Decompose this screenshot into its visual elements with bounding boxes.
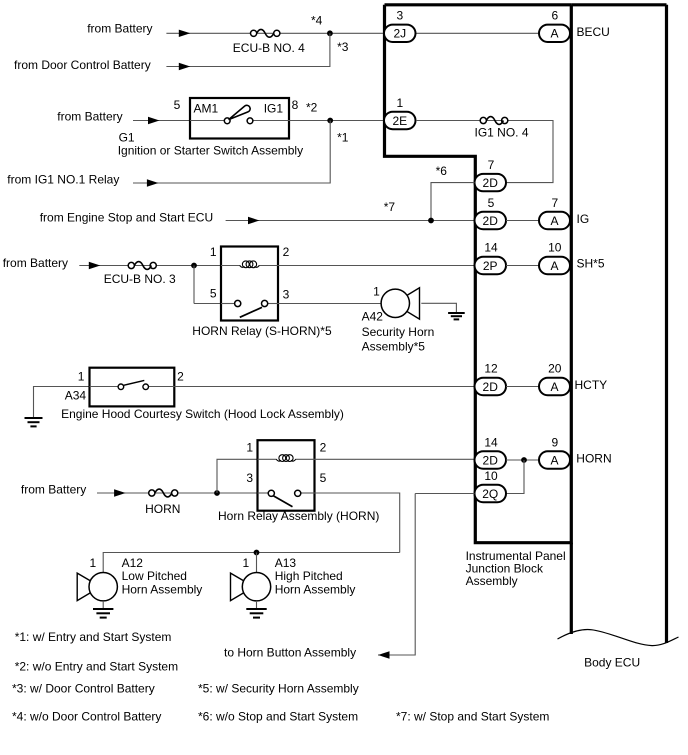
- ground (A12): [93, 608, 113, 610]
- svg-text:*5: w/ Security Horn Assembly: *5: w/ Security Horn Assembly: [198, 682, 359, 696]
- Body ECU outline: [571, 5, 666, 643]
- svg-text:Security Horn: Security Horn: [362, 325, 435, 339]
- svg-text:2J: 2J: [393, 27, 406, 41]
- svg-text:3: 3: [246, 471, 253, 485]
- svg-text:HORN: HORN: [145, 502, 180, 516]
- svg-text:9: 9: [551, 435, 558, 449]
- svg-text:from Battery: from Battery: [87, 21, 152, 35]
- svg-text:from Engine Stop and Start ECU: from Engine Stop and Start ECU: [40, 211, 213, 225]
- wire 2D-14 to A-9 with junction: [506, 459, 539, 461]
- svg-text:1: 1: [210, 245, 217, 259]
- wire 2E through fuse IG1 NO.4 to 2D-7 (inside block): [416, 121, 553, 183]
- svg-text:G1: G1: [119, 130, 135, 144]
- svg-text:12: 12: [484, 362, 498, 376]
- svg-text:A34: A34: [65, 389, 87, 403]
- svg-text:1: 1: [78, 369, 85, 383]
- svg-text:*2: *2: [306, 101, 318, 115]
- svg-text:BECU: BECU: [577, 25, 610, 39]
- relay blade (open): [240, 307, 262, 317]
- wire from Battery to 2J: [166, 32, 384, 34]
- svg-text:5: 5: [210, 287, 217, 301]
- svg-text:IG1 NO. 4: IG1 NO. 4: [475, 126, 529, 140]
- junction dot A13 branch: [254, 550, 260, 556]
- svg-text:20: 20: [548, 362, 562, 376]
- svg-text:Horn Assembly: Horn Assembly: [275, 582, 356, 596]
- ignition key lever: [229, 105, 251, 119]
- wire ground to hood switch: [34, 387, 90, 419]
- svg-text:A: A: [550, 380, 558, 394]
- svg-text:10: 10: [548, 240, 562, 254]
- wire 2D-5 to A-7: [506, 220, 539, 222]
- horn A13 High Pitched Horn Assembly: [231, 573, 245, 601]
- wire switch to 2E: [289, 120, 385, 122]
- junction block Instrumental Panel Junction Block Assembly outline: [385, 5, 572, 543]
- wire relay pin 2 to 2D-14: [315, 458, 475, 460]
- svg-text:7: 7: [488, 158, 495, 172]
- svg-text:SH*5: SH*5: [577, 257, 605, 271]
- svg-text:6: 6: [551, 9, 558, 23]
- svg-text:5: 5: [174, 98, 181, 112]
- wire 2Q to horn button drop: [415, 493, 474, 495]
- svg-text:Horn Relay Assembly (HORN): Horn Relay Assembly (HORN): [218, 509, 379, 523]
- svg-text:*6: *6: [436, 164, 448, 178]
- wire down to A13: [256, 553, 258, 573]
- svg-text:1: 1: [396, 96, 403, 110]
- svg-text:*7: *7: [384, 200, 396, 214]
- wire from IG1 NO.1 Relay up to dot: [133, 121, 330, 184]
- relay coil: [258, 458, 277, 460]
- wire A-9 junction down to 2Q: [506, 460, 524, 494]
- svg-text:2D: 2D: [483, 380, 499, 394]
- wire A13 to ground: [256, 601, 258, 609]
- svg-text:IG1: IG1: [264, 102, 284, 116]
- svg-text:1: 1: [243, 556, 250, 570]
- svg-text:*2: w/o Entry and Start System: *2: w/o Entry and Start System: [15, 660, 178, 674]
- Body ECU break wavy line: [558, 630, 679, 646]
- svg-text:HCTY: HCTY: [575, 378, 608, 392]
- relay blade (open): [274, 496, 293, 507]
- svg-text:Assembly*5: Assembly*5: [362, 339, 426, 353]
- wire *6 from 2D-7 down to stop/start line: [431, 183, 475, 221]
- svg-text:HORN: HORN: [576, 452, 611, 466]
- svg-text:*1: w/ Entry and Start System: *1: w/ Entry and Start System: [15, 630, 172, 644]
- svg-text:*6: w/o Stop and Start System: *6: w/o Stop and Start System: [198, 710, 358, 724]
- svg-text:10: 10: [484, 469, 498, 483]
- wire from Battery through fuse to relay: [79, 265, 221, 267]
- svg-text:14: 14: [484, 435, 498, 449]
- relay contact circles: [258, 492, 269, 494]
- svg-text:A: A: [550, 259, 558, 273]
- wire horn to ground: [421, 303, 456, 313]
- svg-text:AM1: AM1: [194, 102, 219, 116]
- svg-text:Engine Hood Courtesy Switch (H: Engine Hood Courtesy Switch (Hood Lock A…: [61, 407, 344, 421]
- svg-text:2D: 2D: [483, 453, 499, 467]
- svg-text:1: 1: [90, 556, 97, 570]
- svg-text:HORN Relay (S-HORN)*5: HORN Relay (S-HORN)*5: [192, 324, 332, 338]
- svg-text:ECU-B NO. 3: ECU-B NO. 3: [104, 272, 176, 286]
- svg-text:*1: *1: [337, 130, 349, 144]
- svg-text:from Battery: from Battery: [21, 483, 86, 497]
- wire 2P to A-10: [506, 265, 539, 267]
- svg-text:A12: A12: [122, 556, 144, 570]
- junction dot *4/*3: [327, 30, 333, 36]
- switch box A34 Engine Hood Courtesy Switch: [90, 368, 175, 407]
- wire from Door Control Battery up to dot: [166, 33, 330, 66]
- ground (A13): [246, 608, 266, 610]
- wire 2D-12 to A-20: [506, 386, 539, 388]
- svg-text:A: A: [550, 27, 558, 41]
- svg-text:2D: 2D: [483, 214, 499, 228]
- svg-text:from Door Control Battery: from Door Control Battery: [14, 58, 151, 72]
- horn A12 Low Pitched Horn Assembly: [77, 573, 91, 601]
- svg-text:3: 3: [283, 287, 290, 301]
- svg-text:from Battery: from Battery: [3, 256, 68, 270]
- svg-text:*4: w/o Door Control Battery: *4: w/o Door Control Battery: [12, 710, 161, 724]
- wire dot up to relay pin 1: [217, 459, 258, 493]
- svg-text:1: 1: [246, 440, 253, 454]
- wire 2J to A-6 inside block: [416, 32, 539, 34]
- svg-text:8: 8: [292, 98, 299, 112]
- ground (security horn): [448, 312, 465, 314]
- wire dot down to contact row: [193, 266, 195, 304]
- wire drop to Horn Button Assembly: [378, 494, 415, 656]
- svg-text:Low Pitched: Low Pitched: [122, 569, 187, 583]
- wire from Engine Stop and Start ECU to 2D-5: [226, 220, 475, 222]
- junction dot to relay coil/contact: [191, 263, 197, 269]
- svg-text:*3: *3: [337, 40, 349, 54]
- switch box G1 Ignition or Starter Switch Assembly: [190, 98, 289, 139]
- relay box HORN Relay (S-HORN)*5: [221, 247, 278, 321]
- switch contacts inside box: [190, 120, 224, 122]
- svg-text:3: 3: [396, 9, 403, 23]
- ground (hood switch): [25, 417, 43, 419]
- svg-text:2P: 2P: [483, 259, 498, 273]
- fuse IG1 NO. 4: [480, 117, 486, 123]
- junction dot (pin1 branch): [214, 490, 220, 496]
- svg-text:*7: w/ Stop and Start System: *7: w/ Stop and Start System: [396, 710, 549, 724]
- wire horn bus: [103, 553, 400, 573]
- svg-text:Ignition or Starter Switch Ass: Ignition or Starter Switch Assembly: [118, 144, 303, 158]
- svg-text:*3: w/ Door Control Battery: *3: w/ Door Control Battery: [12, 682, 155, 696]
- relay contact circles: [221, 303, 235, 305]
- svg-text:*4: *4: [311, 13, 323, 27]
- fuse ECU-B NO. 4: [251, 30, 257, 36]
- wire relay pin 5 down to horns: [315, 493, 400, 553]
- wire from Battery to switch: [133, 120, 190, 122]
- relay coil: [221, 265, 240, 267]
- switch blade (closed): [124, 380, 145, 385]
- svg-text:A: A: [550, 214, 558, 228]
- wire switch to 2D-12: [174, 386, 474, 388]
- svg-text:2D: 2D: [483, 176, 499, 190]
- junction dot *6/*7: [428, 218, 434, 224]
- svg-text:from Battery: from Battery: [57, 110, 122, 124]
- svg-text:A13: A13: [275, 556, 297, 570]
- relay box Horn Relay Assembly (HORN): [258, 440, 315, 511]
- wire from Battery through HORN fuse to relay pin 3: [97, 492, 258, 494]
- wire relay pin 2 to 2P: [278, 265, 475, 267]
- svg-text:Body ECU: Body ECU: [584, 655, 640, 669]
- svg-text:1: 1: [373, 284, 380, 298]
- svg-text:5: 5: [488, 196, 495, 210]
- svg-text:Assembly: Assembly: [466, 574, 518, 588]
- svg-text:14: 14: [484, 240, 498, 254]
- wire A12 to ground: [102, 601, 104, 609]
- switch contacts: [90, 386, 119, 388]
- svg-text:Horn Assembly: Horn Assembly: [122, 582, 203, 596]
- svg-text:from IG1 NO.1 Relay: from IG1 NO.1 Relay: [7, 173, 119, 187]
- horn A42 Security Horn Assembly*5: [406, 288, 420, 319]
- svg-text:2: 2: [320, 440, 327, 454]
- svg-text:ECU-B NO. 4: ECU-B NO. 4: [233, 41, 305, 55]
- svg-text:to Horn Button Assembly: to Horn Button Assembly: [224, 646, 356, 660]
- svg-text:A: A: [550, 453, 558, 467]
- svg-text:2Q: 2Q: [482, 487, 498, 501]
- svg-text:5: 5: [320, 471, 327, 485]
- svg-text:2E: 2E: [392, 114, 407, 128]
- svg-text:2: 2: [283, 245, 290, 259]
- svg-text:2: 2: [177, 369, 184, 383]
- svg-text:High Pitched: High Pitched: [275, 569, 343, 583]
- wire relay pin 3 to security horn: [278, 303, 381, 305]
- junction dot *2/*1: [327, 118, 333, 124]
- svg-text:IG: IG: [577, 212, 590, 226]
- fuse ECU-B NO. 3: [128, 262, 134, 268]
- svg-text:A42: A42: [362, 310, 384, 324]
- fuse HORN: [149, 490, 155, 496]
- svg-text:7: 7: [551, 196, 558, 210]
